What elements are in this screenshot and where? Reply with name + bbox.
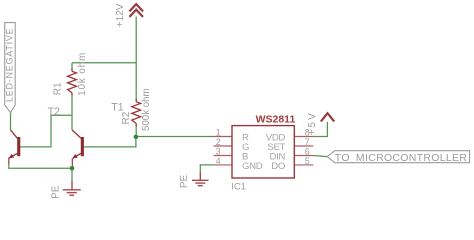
svg-text:WS2811: WS2811 xyxy=(256,114,296,126)
svg-text:R2: R2 xyxy=(121,111,132,124)
svg-text:7: 7 xyxy=(305,137,310,147)
svg-text:T2: T2 xyxy=(48,106,60,118)
svg-text:PE: PE xyxy=(50,185,61,199)
svg-text:R1: R1 xyxy=(53,82,64,95)
svg-text:+5V: +5V xyxy=(307,111,318,135)
svg-text:GND: GND xyxy=(242,161,263,172)
svg-text:IC1: IC1 xyxy=(231,182,246,193)
svg-text:2: 2 xyxy=(216,137,221,147)
svg-text:DO: DO xyxy=(271,161,285,172)
svg-text:5: 5 xyxy=(305,156,310,166)
svg-text:10k ohm: 10k ohm xyxy=(77,52,88,96)
svg-text:1: 1 xyxy=(216,127,221,137)
svg-text:500k ohm: 500k ohm xyxy=(141,88,152,131)
svg-text:TO_MICROCONTROLLER: TO_MICROCONTROLLER xyxy=(335,152,468,164)
svg-text:4: 4 xyxy=(216,156,221,166)
svg-text:PE: PE xyxy=(179,175,190,189)
svg-text:+12V: +12V xyxy=(115,3,126,27)
svg-text:LED-NEGATIVE: LED-NEGATIVE xyxy=(5,28,15,102)
